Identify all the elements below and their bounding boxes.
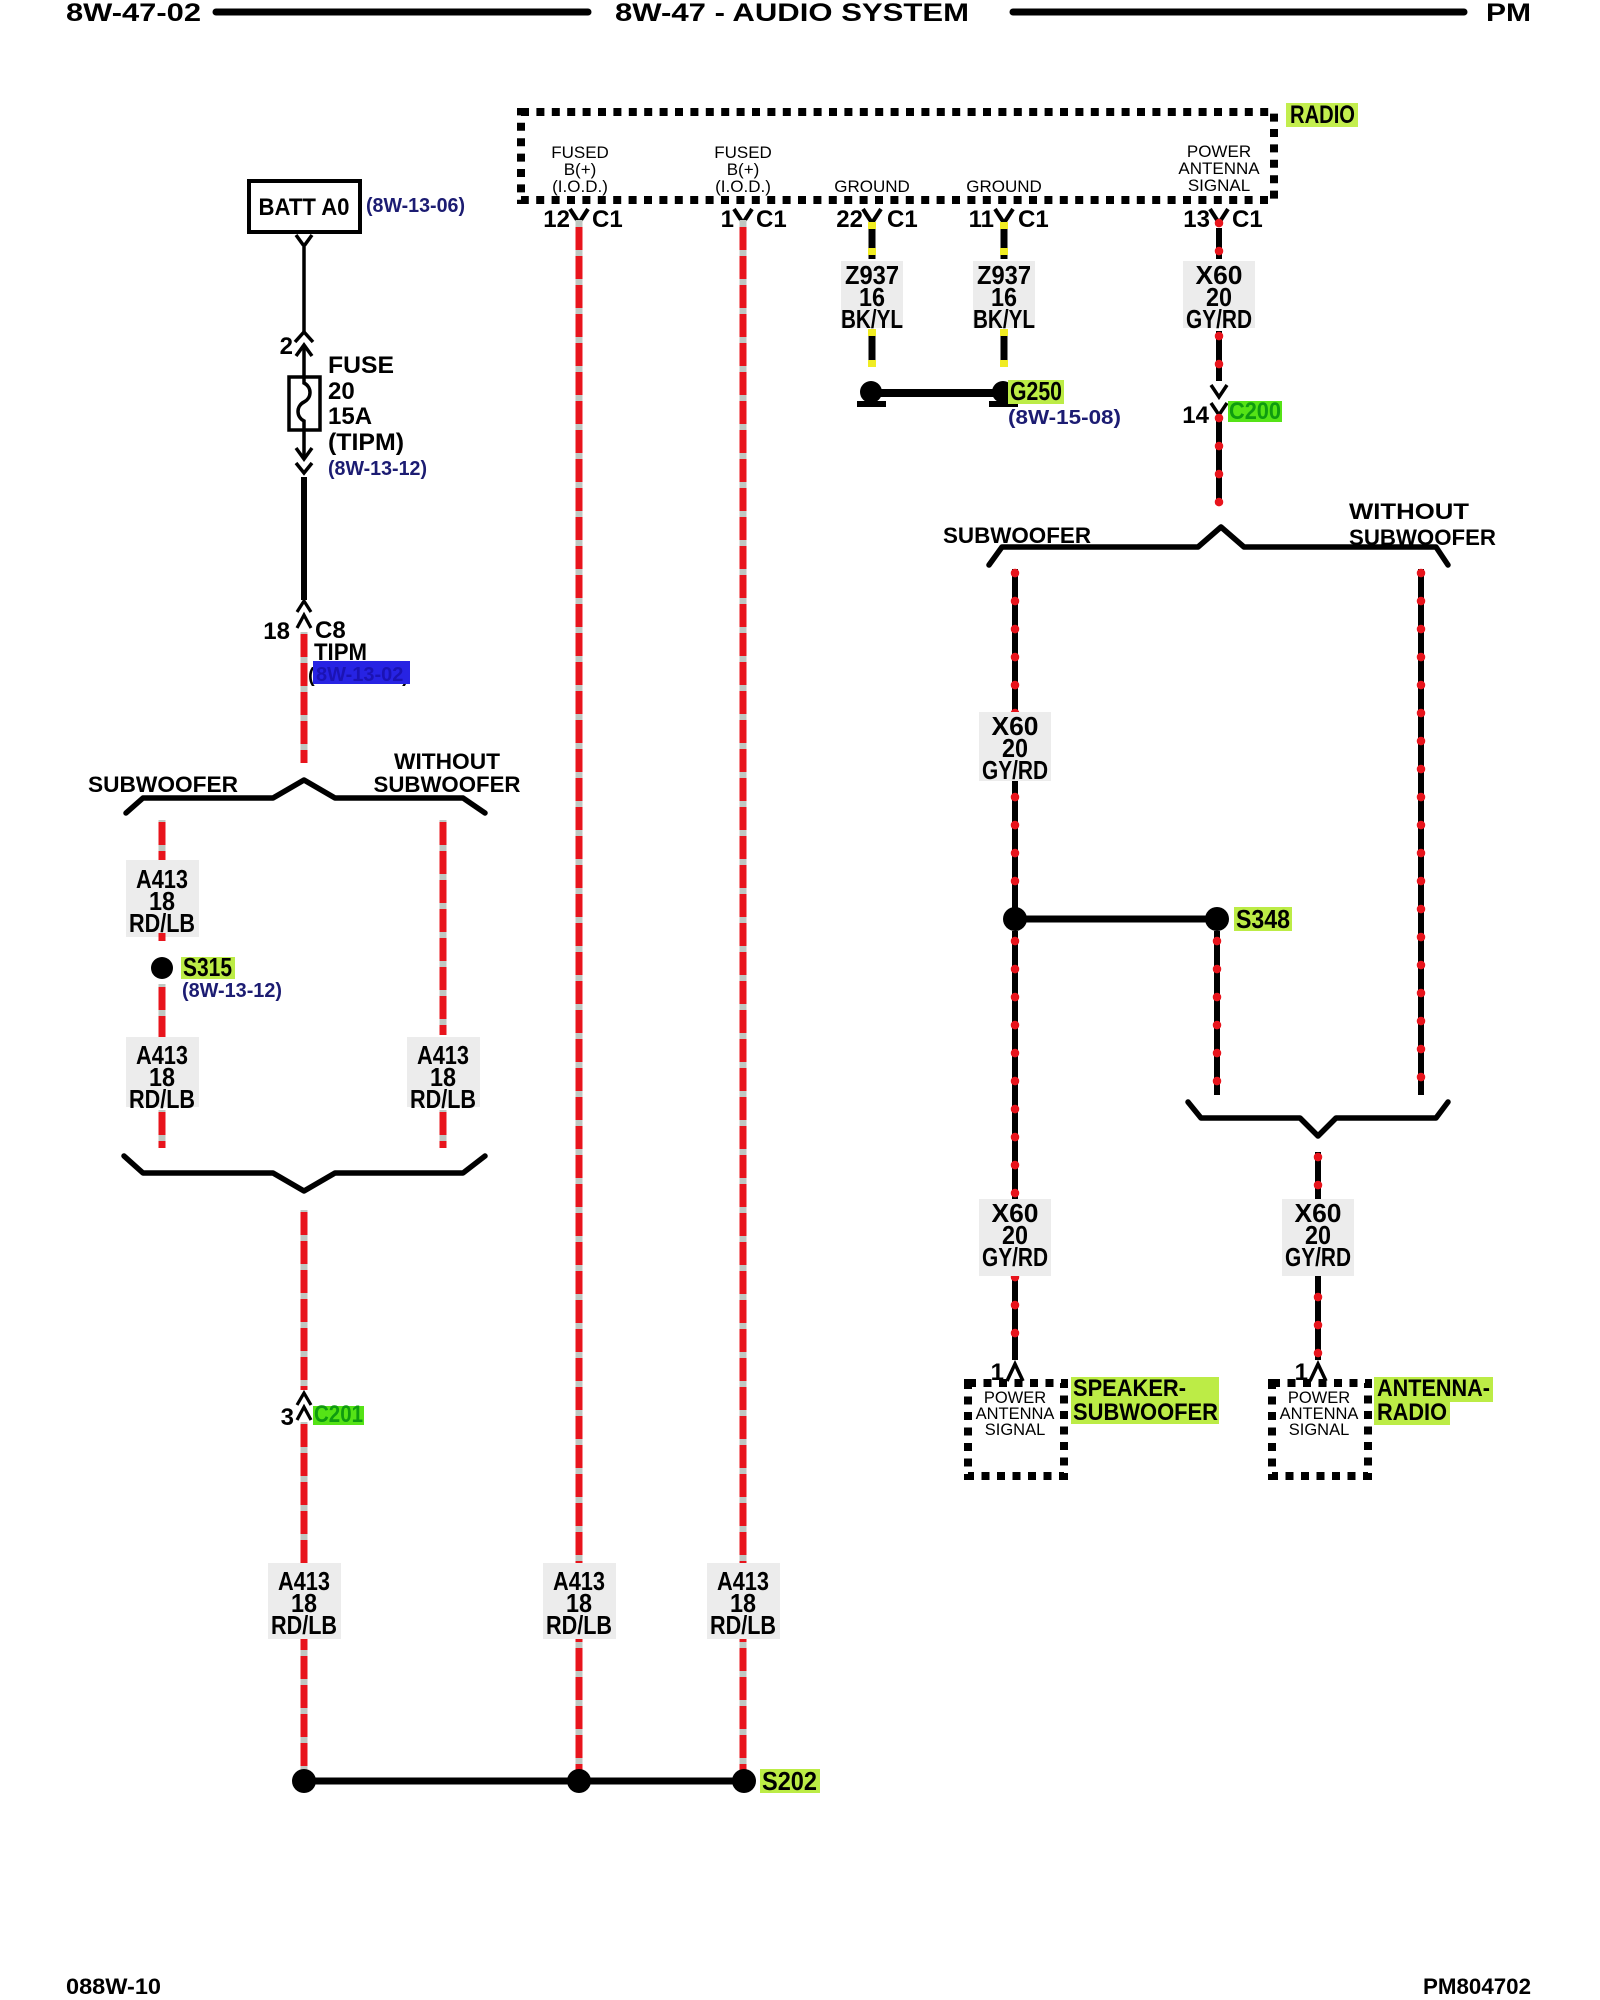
- wire label A413 18 RD/LB (lower left): [126, 1037, 199, 1114]
- splice bus S348: [1015, 916, 1217, 923]
- wire X60 pin13 lower segment to C200: [1216, 331, 1222, 381]
- svg-text:SUBWOOFER: SUBWOOFER: [1073, 1399, 1218, 1426]
- wire label A413 18 RD/LB (right branch): [407, 1037, 480, 1114]
- ANTENNA-RADIO label highlight line1: [1374, 1377, 1493, 1402]
- splice S315: [151, 957, 173, 979]
- svg-text:8W-47-02: 8W-47-02: [66, 0, 201, 27]
- merge brace (left circuit): [124, 1156, 485, 1191]
- connector chevron pin 22: [863, 209, 881, 223]
- C201 label highlight: [313, 1406, 364, 1425]
- svg-text:RD/LB: RD/LB: [546, 1610, 612, 1640]
- wire X60 subwoofer branch to S348: [1012, 569, 1018, 912]
- svg-text:14: 14: [1182, 402, 1209, 429]
- wire label A413 18 RD/LB (bottom right wire): [707, 1563, 780, 1640]
- connector chevron pin 1: [734, 209, 752, 223]
- connector pin label POWER ANTENNA SIGNAL (antenna): [1280, 1389, 1359, 1439]
- fuse element S-curve: [298, 377, 310, 430]
- svg-text:8W-13-02: 8W-13-02: [316, 664, 403, 686]
- svg-text:RADIO: RADIO: [1377, 1399, 1447, 1426]
- pin 1 C1: [721, 206, 787, 233]
- wire A413 subwoofer branch upper segment: [159, 820, 166, 860]
- svg-text:BATT A0: BATT A0: [259, 194, 350, 221]
- junction dot S202 left: [292, 1769, 316, 1793]
- svg-text:GROUND: GROUND: [834, 177, 910, 196]
- wire label A413 18 RD/LB (bottom left wire): [268, 1563, 341, 1640]
- battery feed box BATT A0: [249, 181, 360, 232]
- wire X60 merged to antenna connector: [1315, 1152, 1321, 1360]
- blue highlight box over reference: [313, 661, 410, 684]
- thick black wire to TIPM: [301, 477, 307, 600]
- svg-text:S315: S315: [183, 952, 232, 982]
- up arrow into fuse: [296, 345, 312, 377]
- connector chevron pin 11: [995, 209, 1013, 223]
- wire A413 from pin 1 (red/gray dashed): [740, 220, 747, 1774]
- wire below lower-left label: [159, 1110, 166, 1148]
- svg-text:(8W-13-06): (8W-13-06): [366, 195, 465, 217]
- svg-text:C1: C1: [756, 206, 787, 233]
- svg-text:SIGNAL: SIGNAL: [985, 1421, 1046, 1439]
- junction dot S202 middle: [567, 1769, 591, 1793]
- wire label X60 20 GY/RD (subwoofer branch): [979, 711, 1051, 785]
- svg-text:12: 12: [543, 206, 570, 233]
- connector chevron pin 13: [1210, 209, 1228, 223]
- svg-text:PM: PM: [1486, 0, 1531, 27]
- wire below right-branch label: [440, 1110, 447, 1148]
- svg-text:S202: S202: [762, 1766, 817, 1796]
- svg-text:C1: C1: [887, 206, 918, 233]
- wire X60 drop from S348 right: [1214, 931, 1220, 1095]
- connector chevron pin 12: [570, 209, 588, 223]
- label WITHOUT SUBWOOFER (right circuit): [1349, 499, 1496, 550]
- header rule left: [216, 9, 588, 16]
- svg-text:S348: S348: [1236, 904, 1290, 934]
- wire from BATT A0 to fuse: [302, 247, 306, 334]
- connector chevron (antenna): [1310, 1364, 1326, 1381]
- svg-text:C201: C201: [314, 1401, 363, 1428]
- wire A413 from pin 12 (red/gray dashed): [576, 220, 583, 1774]
- svg-text:RD/LB: RD/LB: [410, 1084, 476, 1114]
- svg-text:13: 13: [1183, 206, 1210, 233]
- pin 11 C1: [969, 206, 1049, 233]
- header rule right: [1013, 9, 1464, 16]
- svg-text:RD/LB: RD/LB: [710, 1610, 776, 1640]
- connector chevron (speaker): [1007, 1364, 1023, 1381]
- svg-text:C1: C1: [1232, 206, 1263, 233]
- wire label X60 20 GY/RD (lower subwoofer): [979, 1198, 1051, 1276]
- svg-text:(8W-15-08): (8W-15-08): [1008, 407, 1121, 429]
- svg-text:SIGNAL: SIGNAL: [1188, 176, 1250, 195]
- svg-text:RD/LB: RD/LB: [271, 1610, 337, 1640]
- wire label A413 18 RD/LB (upper left): [126, 860, 199, 938]
- wire label X60 20 GY/RD (merged): [1282, 1198, 1354, 1276]
- S348 label highlight: [1234, 907, 1292, 931]
- label WITHOUT SUBWOOFER (left circuit): [374, 749, 521, 797]
- chevron above arrow (pin 2): [295, 332, 313, 342]
- wire A413 without-subwoofer branch: [440, 820, 447, 1035]
- svg-text:SUBWOOFER: SUBWOOFER: [1349, 525, 1496, 550]
- connector chevrons at C200: [1211, 385, 1227, 397]
- svg-text:SUBWOOFER: SUBWOOFER: [943, 523, 1091, 548]
- wire below S315: [159, 984, 166, 1037]
- junction dot S348 left: [1003, 907, 1027, 931]
- svg-text:GY/RD: GY/RD: [1285, 1242, 1351, 1272]
- svg-text:C200: C200: [1229, 398, 1281, 425]
- radio module dashed box: [521, 112, 1274, 200]
- wire X60 below C200: [1216, 417, 1222, 505]
- ground bus bar G250: [871, 389, 1003, 397]
- merge brace (right circuit): [1188, 1102, 1448, 1136]
- C200 label highlight: [1228, 401, 1282, 422]
- down arrow out of fuse: [296, 430, 312, 459]
- connector pin label POWER ANTENNA SIGNAL (speaker): [976, 1389, 1055, 1439]
- svg-text:SUBWOOFER: SUBWOOFER: [374, 772, 521, 797]
- pin label POWER ANTENNA SIGNAL pin13: [1178, 142, 1260, 195]
- svg-text:SUBWOOFER: SUBWOOFER: [88, 772, 238, 797]
- svg-text:PM804702: PM804702: [1423, 1974, 1531, 1999]
- svg-text:GY/RD: GY/RD: [1186, 304, 1252, 334]
- svg-text:SPEAKER-: SPEAKER-: [1073, 1375, 1186, 1402]
- svg-text:RD/LB: RD/LB: [129, 1084, 195, 1114]
- pin 22 C1: [836, 206, 917, 233]
- wire X60 below S348 to speaker connector: [1012, 931, 1018, 1360]
- chevron below arrow: [296, 463, 312, 473]
- S202 label highlight: [760, 1769, 820, 1793]
- svg-text:(TIPM): (TIPM): [328, 429, 404, 456]
- wire stub above S315: [159, 933, 166, 941]
- pin 12 C1: [543, 206, 622, 233]
- ground wire Z937 pin22 upper segment: [868, 222, 876, 259]
- svg-text:C1: C1: [1018, 206, 1049, 233]
- junction dot S202 right: [732, 1769, 756, 1793]
- wire A413 below C8 (red dashed): [301, 632, 308, 763]
- split brace subwoofer/without subwoofer (right circuit): [989, 527, 1448, 565]
- wire X60 from pin13 upper segment (bk with rd dots): [1216, 223, 1222, 259]
- svg-text:GY/RD: GY/RD: [982, 1242, 1048, 1272]
- svg-text:2: 2: [280, 333, 293, 360]
- wire A413 from C201 to S202: [301, 1422, 308, 1774]
- junction dot S348 right: [1205, 907, 1229, 931]
- svg-text:20: 20: [328, 378, 355, 405]
- svg-text:GY/RD: GY/RD: [982, 755, 1048, 785]
- wire X60 without-subwoofer branch: [1418, 569, 1424, 1095]
- connector chevron below BATT A0: [296, 235, 312, 246]
- speaker-subwoofer connector dashed box: [968, 1383, 1064, 1476]
- pin 13 C1: [1183, 206, 1262, 233]
- svg-text:1: 1: [721, 206, 734, 233]
- svg-text:3: 3: [281, 1404, 294, 1431]
- fuse F20 body: [289, 377, 320, 430]
- wire label X60 20 GY/RD (top): [1183, 260, 1255, 334]
- svg-text:(8W-13-12): (8W-13-12): [328, 458, 427, 480]
- ANTENNA-RADIO label text: [1377, 1375, 1490, 1426]
- wire label Z937 16 BK/YL (pin11): [973, 260, 1035, 334]
- ground symbol left: [857, 381, 886, 407]
- ground wire Z937 pin11 upper segment: [1000, 222, 1008, 259]
- svg-text:ANTENNA-: ANTENNA-: [1377, 1375, 1490, 1402]
- svg-text:11: 11: [969, 206, 994, 233]
- svg-text:RADIO: RADIO: [1290, 101, 1355, 129]
- svg-text:C1: C1: [592, 206, 623, 233]
- connector chevrons at C201: [297, 1393, 311, 1405]
- svg-text:22: 22: [836, 206, 863, 233]
- svg-text:(I.O.D.): (I.O.D.): [715, 177, 771, 196]
- svg-text:8W-47 - AUDIO SYSTEM: 8W-47 - AUDIO SYSTEM: [615, 0, 969, 27]
- ground wire Z937 pin22 lower segment: [868, 329, 876, 367]
- wire label A413 18 RD/LB (bottom middle wire): [543, 1563, 616, 1640]
- svg-text:15A: 15A: [328, 403, 372, 430]
- RADIO label highlight: [1286, 103, 1358, 127]
- ANTENNA-RADIO label highlight line2: [1374, 1402, 1450, 1425]
- svg-text:18: 18: [263, 618, 290, 645]
- G250 label highlight: [1008, 380, 1064, 404]
- ground wire Z937 pin11 lower segment: [1000, 329, 1008, 367]
- connector chevrons at C8: [297, 601, 311, 612]
- SPEAKER-SUBWOOFER label highlight: [1071, 1377, 1219, 1424]
- pin label FUSED B(+) (I.O.D.) pin12: [551, 143, 609, 196]
- svg-text:WITHOUT: WITHOUT: [394, 749, 501, 774]
- split brace subwoofer/without subwoofer (left circuit): [126, 780, 485, 813]
- svg-text:(8W-13-12): (8W-13-12): [182, 980, 282, 1002]
- svg-text:G250: G250: [1010, 376, 1062, 406]
- wire label Z937 16 BK/YL (pin22): [841, 260, 903, 334]
- S315 label highlight: [181, 957, 235, 979]
- fuse text FUSE 20 15A (TIPM): [328, 352, 404, 456]
- wire A413 from merge brace to C201: [301, 1210, 308, 1390]
- svg-text:FUSE: FUSE: [328, 352, 394, 379]
- svg-text:GROUND: GROUND: [966, 177, 1042, 196]
- svg-text:088W-10: 088W-10: [66, 1974, 161, 1999]
- ground symbol right: [989, 381, 1018, 407]
- SPEAKER-SUBWOOFER label text: [1073, 1375, 1218, 1426]
- antenna-radio connector dashed box: [1272, 1383, 1368, 1476]
- svg-text:(I.O.D.): (I.O.D.): [552, 177, 608, 196]
- svg-text:SIGNAL: SIGNAL: [1289, 1421, 1350, 1439]
- pin label FUSED B(+) (I.O.D.) pin1: [714, 143, 772, 196]
- splice bus S202: [304, 1778, 744, 1785]
- svg-text:WITHOUT: WITHOUT: [1349, 499, 1470, 524]
